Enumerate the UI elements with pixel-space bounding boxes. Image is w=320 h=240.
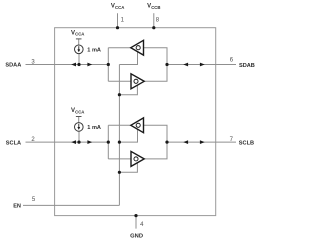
wire bottom buffer output to SDAB node: [144, 65, 167, 82]
svg-text:SDAA: SDAA: [5, 63, 21, 69]
buffer SCL B-to-A (points left): [131, 118, 144, 133]
junction pin1 on body: [116, 26, 119, 29]
wire SDAB output: [167, 64, 236, 66]
wire top buffer output: [108, 124, 131, 126]
svg-text:CCA: CCA: [75, 109, 84, 114]
wire top buffer input to SDAB node: [144, 48, 168, 65]
wire enable tap (top buffer): [119, 52, 137, 65]
wire SCLA input: [26, 141, 109, 143]
svg-text:SCLB: SCLB: [239, 141, 254, 147]
node SDAA junction: [107, 63, 110, 66]
wire enable tap (top buffer): [119, 129, 137, 142]
wire SCLB output: [167, 141, 236, 143]
buffer SDA A-to-B (points right): [131, 74, 144, 89]
svg-text:1 mA: 1 mA: [87, 125, 101, 131]
wire top buffer output: [108, 47, 131, 49]
current source 1 mA: [75, 123, 84, 132]
svg-text:1 mA: 1 mA: [87, 47, 101, 53]
svg-text:GND: GND: [130, 233, 143, 239]
wire EN input (pin 5): [23, 204, 119, 206]
wire bottom buffer output to SCLB node: [144, 142, 167, 159]
svg-text:SDAB: SDAB: [239, 63, 255, 69]
power tap V_CCA bar: [76, 38, 82, 40]
power tap V_CCA bar: [76, 116, 82, 118]
junction current source on A wire: [77, 63, 80, 66]
svg-text:CCA: CCA: [115, 5, 124, 10]
arrow bidirectional B-side: [183, 63, 188, 67]
pin 1 VCCA lead: [117, 13, 119, 28]
arrow bidirectional B-side: [183, 140, 188, 144]
wire enable tap (bottom buffer): [119, 163, 137, 173]
node SCLA junction: [107, 141, 110, 144]
junction pin8 on body: [152, 26, 155, 29]
wire EN distribution vertical: [118, 65, 120, 206]
buffer SDA B-to-A (points left): [131, 40, 144, 55]
wire SDAA input: [26, 64, 109, 66]
IC body outline: [55, 28, 216, 216]
wire SDAA node vertical: [107, 48, 109, 82]
wire top buffer input to SCLB node: [144, 125, 168, 142]
junction current source on A wire: [77, 141, 80, 144]
wire current-source lead: [78, 131, 80, 142]
current source 1 mA: [75, 45, 84, 54]
wire current-source lead: [78, 54, 80, 65]
buffer SCL A-to-B (points right): [131, 151, 144, 166]
svg-text:CCA: CCA: [75, 32, 84, 37]
junction EN tap SCL top: [118, 141, 121, 144]
svg-text:EN: EN: [13, 204, 21, 210]
pin 8 VCCB lead: [153, 13, 155, 28]
node SCLB junction: [165, 141, 168, 144]
node SDAB junction: [165, 63, 168, 66]
arrow bidirectional A-side: [71, 63, 76, 67]
junction EN tap SCL bottom: [118, 171, 121, 174]
svg-text:SCLA: SCLA: [6, 140, 21, 146]
wire SCLA node vertical: [107, 125, 109, 159]
wire bottom buffer input: [108, 80, 131, 82]
junction GND on body: [134, 214, 137, 217]
svg-text:CCB: CCB: [151, 5, 160, 10]
wire bottom buffer input: [108, 158, 131, 160]
pin 4 GND lead: [135, 216, 137, 229]
junction EN tap SDA bottom: [118, 93, 121, 96]
wire enable tap (bottom buffer): [119, 85, 137, 95]
arrow bidirectional A-side: [71, 140, 76, 144]
